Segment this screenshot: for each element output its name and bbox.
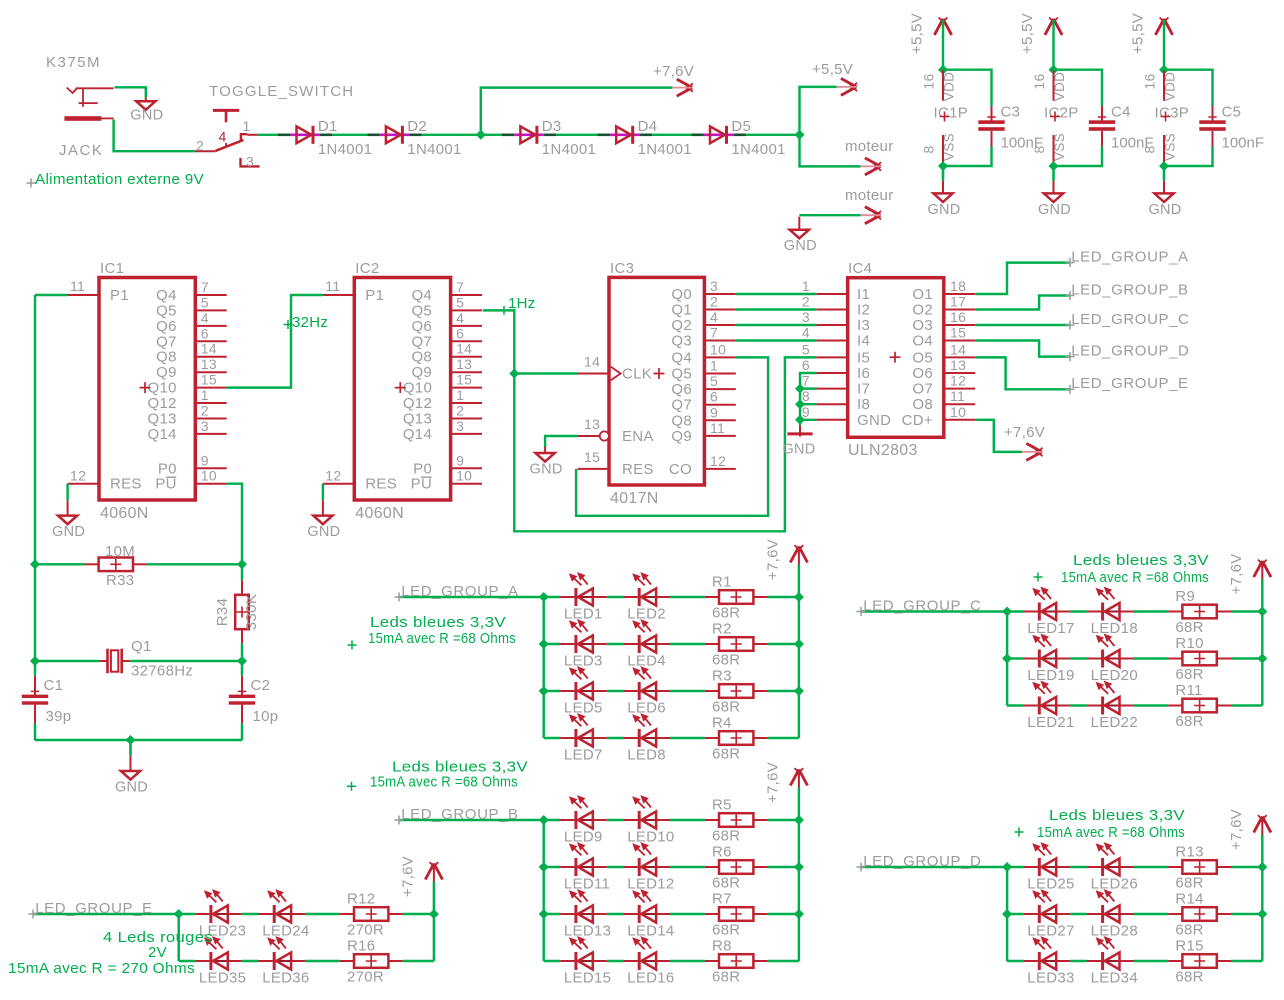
IC IC4 pin 15 O4 [912, 325, 975, 350]
wire jack tip to GND [115, 87, 146, 97]
wire IC2 RES to GND [322, 484, 324, 501]
wire IC3 Q3 to IC4 I4 [736, 339, 817, 341]
svg-text:PU: PU [411, 476, 432, 493]
supply arrow +7,6V LED_GROUP_A [790, 547, 807, 563]
svg-text:+5,5V: +5,5V [909, 13, 926, 54]
LED LED5 [560, 666, 607, 716]
wire D5 to right junction [746, 134, 800, 136]
svg-text:R13: R13 [1175, 844, 1203, 861]
svg-text:12: 12 [950, 373, 966, 389]
wire IC4 I6-I8-GND bus [800, 373, 816, 425]
wire IC1 Q10 to IC2 P1 net 32Hz [226, 295, 323, 388]
wire IC3 Q0 to IC4 I1 [736, 293, 817, 295]
svg-text:C4: C4 [1111, 104, 1131, 121]
svg-text:LED12: LED12 [627, 876, 674, 893]
LED LED10 [624, 795, 675, 845]
svg-text:IC2: IC2 [355, 260, 379, 277]
node R33 left junction [30, 559, 40, 569]
capacitor C1 [22, 676, 72, 725]
svg-text:Q3: Q3 [671, 333, 692, 350]
svg-text:P1: P1 [110, 287, 129, 304]
wire LED_GROUP_E row 2 [179, 960, 196, 962]
wire LED_GROUP_D row 2 [1007, 913, 1024, 915]
svg-text:2: 2 [201, 403, 209, 419]
svg-text:C1: C1 [44, 677, 64, 694]
svg-text:Q14: Q14 [148, 426, 177, 443]
wire IC1 P1 to left bus [35, 294, 68, 296]
svg-text:LED21: LED21 [1027, 714, 1074, 731]
wire O2 to LED_GROUP_B label [975, 296, 1070, 310]
svg-text:68R: 68R [712, 875, 740, 892]
svg-text:Leds bleues 3,3V: Leds bleues 3,3V [370, 614, 506, 631]
svg-text:+7,6V: +7,6V [1228, 809, 1245, 850]
IC IC3 4017N body [609, 260, 704, 507]
node LED_GROUP_C right junction [1257, 607, 1267, 617]
text leds bleues C [1034, 573, 1043, 582]
IC IC3 pin 3 Q0 [671, 278, 735, 303]
svg-text:+7,6V: +7,6V [653, 63, 694, 80]
svg-text:LED4: LED4 [627, 653, 666, 670]
resistor R2 [705, 621, 768, 669]
svg-text:Q0: Q0 [671, 286, 692, 303]
svg-text:5: 5 [456, 294, 464, 310]
svg-text:9: 9 [710, 404, 718, 420]
svg-text:5: 5 [802, 341, 810, 357]
wire LED_GROUP_D right bus [1261, 835, 1263, 962]
svg-text:68R: 68R [1175, 969, 1203, 986]
svg-text:16: 16 [1142, 73, 1158, 89]
svg-text:D3: D3 [542, 118, 562, 135]
IC power part IC3P pin 16 VDD [1163, 70, 1165, 101]
wire LED_GROUP_C left bus [1006, 612, 1008, 706]
svg-text:1: 1 [243, 118, 251, 134]
svg-text:D1: D1 [318, 118, 338, 135]
svg-text:R2: R2 [712, 621, 732, 638]
svg-text:Q12: Q12 [148, 395, 177, 412]
svg-text:+7,6V: +7,6V [765, 762, 782, 803]
svg-text:Q1: Q1 [671, 302, 692, 319]
svg-text:LED_GROUP_A: LED_GROUP_A [1071, 249, 1188, 266]
wire LED_GROUP_E left bus [177, 914, 179, 961]
svg-text:4: 4 [201, 310, 209, 326]
svg-text:P1: P1 [365, 287, 384, 304]
svg-text:PU: PU [155, 476, 176, 493]
svg-text:14: 14 [201, 341, 217, 357]
svg-text:100nF: 100nF [1222, 135, 1265, 152]
resistor R11 [1168, 682, 1231, 730]
svg-text:GND: GND [530, 462, 563, 478]
svg-text:R10: R10 [1175, 635, 1203, 652]
wire LED_GROUP_A row 1 [544, 596, 561, 598]
svg-text:Q4: Q4 [671, 349, 692, 366]
svg-text:GND: GND [1148, 202, 1181, 218]
capacitor C3 100nF [978, 104, 1043, 152]
svg-text:R15: R15 [1175, 938, 1203, 955]
wire D2 to junction [422, 134, 481, 136]
wire C5 to VSS [1164, 147, 1213, 167]
svg-text:68R: 68R [712, 922, 740, 939]
svg-text:7: 7 [201, 279, 209, 295]
IC IC4 pin 13 O6 [912, 357, 975, 382]
diode D2 [367, 118, 461, 158]
IC IC4 pin 11 O8 [912, 388, 975, 413]
svg-text:+7,6V: +7,6V [1228, 553, 1245, 594]
wire LED_GROUP_D left bus [1006, 867, 1008, 961]
svg-text:LED20: LED20 [1091, 667, 1138, 684]
IC IC4 pin 2 I2 [802, 294, 870, 319]
svg-text:11: 11 [325, 278, 340, 294]
svg-text:1: 1 [201, 387, 209, 403]
connector JACK K375M [46, 54, 114, 159]
svg-text:CO: CO [669, 461, 692, 478]
svg-text:I4: I4 [857, 333, 870, 350]
svg-text:C2: C2 [251, 677, 271, 694]
svg-text:5: 5 [710, 373, 718, 389]
IC IC4 pin 7 I7 [802, 373, 870, 398]
svg-text:10p: 10p [253, 708, 279, 725]
ground GND IC1 [67, 501, 69, 516]
svg-text:10: 10 [710, 341, 726, 357]
resistor R13 [1168, 844, 1231, 892]
wire LED_GROUP_B right bus [798, 788, 800, 962]
svg-text:270R: 270R [347, 922, 384, 939]
IC IC4 marker + [890, 352, 901, 363]
svg-text:13: 13 [950, 357, 966, 373]
IC IC1 pin 2 Q13 [148, 403, 227, 428]
svg-text:Q2: Q2 [671, 317, 692, 334]
svg-text:1N4001: 1N4001 [407, 141, 461, 158]
svg-text:IC1P: IC1P [934, 105, 969, 122]
ground GND IC2 [322, 501, 324, 516]
svg-text:R16: R16 [347, 938, 375, 955]
svg-text:14: 14 [456, 341, 472, 357]
svg-text:LED6: LED6 [627, 700, 666, 717]
resistor R5 [705, 797, 768, 845]
svg-text:LED_GROUP_D: LED_GROUP_D [863, 853, 981, 870]
svg-text:3: 3 [201, 418, 209, 434]
svg-text:GND: GND [52, 524, 85, 540]
wire switch to D1 [258, 134, 278, 136]
wire IC3 Q2 to IC4 I3 [736, 324, 817, 326]
svg-text:3: 3 [456, 418, 464, 434]
LED LED19 [1024, 634, 1075, 684]
diode D3 [502, 118, 596, 158]
supply arrow +7,6V LED_GROUP_B [790, 770, 807, 786]
svg-text:68R: 68R [712, 828, 740, 845]
svg-text:Q5: Q5 [411, 302, 432, 319]
svg-text:68R: 68R [1175, 713, 1203, 730]
svg-text:R12: R12 [347, 891, 375, 908]
IC IC2 pin 11 P1 [323, 278, 384, 304]
IC IC3 pin 15 RES [578, 449, 654, 478]
wire LED_GROUP_A row 4 [544, 737, 561, 739]
LED LED28 [1087, 889, 1138, 939]
svg-text:LED33: LED33 [1027, 970, 1074, 987]
node GND pin junction [795, 415, 805, 425]
svg-text:O4: O4 [912, 333, 933, 350]
IC IC1 pin 12 RES [68, 468, 142, 493]
svg-text:LED_GROUP_C: LED_GROUP_C [863, 598, 981, 615]
IC IC3 pin 14 CLK [578, 354, 665, 383]
LED LED13 [560, 889, 611, 939]
svg-text:LED_GROUP_C: LED_GROUP_C [1071, 311, 1189, 328]
IC IC3 pin 6 Q7 [671, 389, 735, 414]
wire crystal right [130, 660, 242, 662]
svg-text:IC3P: IC3P [1155, 105, 1190, 122]
svg-text:R4: R4 [712, 715, 732, 732]
IC IC3 pin 12 CO [669, 453, 736, 478]
svg-text:LED_GROUP_E: LED_GROUP_E [1071, 375, 1188, 392]
LED LED11 [560, 842, 610, 892]
svg-text:I1: I1 [857, 286, 870, 303]
svg-text:8: 8 [802, 388, 810, 404]
diode D4 [598, 118, 692, 158]
IC power part IC3P pin 8 VSS [1163, 135, 1165, 166]
svg-text:LED28: LED28 [1091, 923, 1138, 940]
IC IC4 pin 1 I1 [802, 278, 870, 303]
IC IC3 pin 7 Q3 [671, 325, 735, 350]
node LED_GROUP_C left junction [1002, 654, 1012, 664]
svg-text:O2: O2 [912, 302, 933, 319]
svg-text:10: 10 [201, 468, 217, 484]
node VSS junction IC3P [1159, 161, 1169, 171]
wire bottom gnd rail [35, 739, 242, 741]
svg-text:GND: GND [115, 780, 148, 796]
node LED_GROUP_B right junction [794, 862, 804, 872]
wire junction to D3 [481, 134, 502, 136]
IC IC4 pin 6 I6 [802, 357, 870, 382]
svg-text:D2: D2 [407, 118, 427, 135]
wire LED_GROUP_B row 4 [544, 960, 561, 962]
svg-text:R14: R14 [1175, 891, 1203, 908]
IC power part IC2P pin 16 VDD [1053, 70, 1055, 101]
svg-text:VSS: VSS [1163, 133, 1178, 161]
wire CD+ to +7,6V [975, 420, 1022, 452]
svg-text:RES: RES [622, 461, 654, 478]
node +7,6V tap junction [476, 130, 486, 140]
resistor R4 [705, 715, 768, 763]
wire C4 to VSS [1054, 147, 1103, 167]
flag moteur 1 [865, 158, 881, 175]
svg-text:LED_GROUP_D: LED_GROUP_D [1071, 343, 1189, 360]
label 32Hz [284, 320, 293, 329]
svg-text:68R: 68R [1175, 922, 1203, 939]
LED LED8 [624, 713, 671, 763]
wire +5,5V to VDD IC3P [1163, 20, 1165, 70]
svg-text:7: 7 [802, 373, 810, 389]
wire C1 bottom [34, 723, 36, 740]
IC IC4 pin 9 GND [802, 404, 891, 429]
wire bus to R34 [241, 564, 243, 580]
IC IC1 pin 15 Q10 [148, 372, 227, 397]
svg-text:11: 11 [70, 278, 85, 294]
svg-text:1N4001: 1N4001 [731, 141, 785, 158]
svg-text:15mA avec R = 270 Ohms: 15mA avec R = 270 Ohms [8, 960, 195, 977]
resistor R34 [214, 581, 260, 644]
wire moteur 2 [799, 214, 860, 216]
wire jack sleeve to switch pin 2 [114, 120, 195, 152]
wire LED_GROUP_A right bus [798, 565, 800, 739]
svg-text:GND: GND [857, 412, 891, 429]
svg-text:LED16: LED16 [627, 970, 674, 987]
svg-text:Alimentation externe 9V: Alimentation externe 9V [35, 171, 204, 188]
net label LED_GROUP_E [1066, 385, 1075, 394]
node LED_GROUP_A right junction [794, 686, 804, 696]
svg-text:IC2P: IC2P [1044, 105, 1079, 122]
svg-text:Q1: Q1 [131, 638, 152, 655]
node +5,5V/moteur junction [795, 130, 805, 140]
supply arrow +7,6V top [677, 79, 693, 96]
LED LED22 [1087, 681, 1138, 731]
wire LED_GROUP_D row 1 [1007, 866, 1024, 868]
wire IC1 PU to bus [226, 484, 242, 565]
svg-text:R11: R11 [1175, 682, 1202, 699]
svg-text:68R: 68R [712, 969, 740, 986]
svg-text:1: 1 [456, 387, 464, 403]
LED LED24 [259, 889, 310, 939]
node I7 junction [795, 384, 805, 394]
svg-text:1N4001: 1N4001 [542, 141, 596, 158]
svg-text:4: 4 [456, 310, 464, 326]
svg-text:I7: I7 [857, 381, 870, 398]
wire +5,5V to VDD IC2P [1052, 20, 1054, 70]
LED LED2 [624, 572, 671, 622]
svg-text:6: 6 [456, 325, 464, 341]
svg-text:8: 8 [1142, 145, 1158, 153]
node LED_GROUP_D right junction [1257, 862, 1267, 872]
svg-text:VSS: VSS [942, 133, 957, 161]
svg-text:Leds bleues 3,3V: Leds bleues 3,3V [1073, 552, 1209, 569]
svg-text:Q7: Q7 [671, 397, 692, 414]
svg-text:68R: 68R [1175, 619, 1203, 636]
wire O4 to LED_GROUP_D label [975, 341, 1070, 357]
svg-text:I5: I5 [857, 349, 870, 366]
svg-text:12: 12 [70, 468, 86, 484]
node CLK junction [509, 369, 519, 379]
IC IC1 pin 11 P1 [68, 278, 129, 304]
svg-text:LED7: LED7 [564, 747, 603, 764]
IC IC2 pin 1 Q12 [403, 387, 482, 412]
svg-text:LED15: LED15 [564, 970, 611, 987]
wire O5 to LED_GROUP_E label [975, 357, 1070, 389]
svg-text:32768Hz: 32768Hz [131, 663, 193, 680]
wire +5,5V tap [800, 87, 837, 135]
IC IC4 pin 14 O5 [912, 341, 975, 366]
LED LED25 [1024, 842, 1075, 892]
IC power part IC2P pin 8 VSS [1053, 135, 1055, 166]
ground GND IC3P [1163, 166, 1166, 181]
node VSS junction IC1P [938, 161, 948, 171]
text leds bleues D [1015, 828, 1024, 837]
svg-text:16: 16 [1031, 73, 1047, 89]
capacitor C2 [229, 676, 279, 725]
LED LED16 [624, 936, 675, 986]
svg-text:LED18: LED18 [1091, 620, 1138, 637]
net label LED_GROUP_D [1066, 352, 1075, 361]
svg-text:4060N: 4060N [355, 505, 404, 522]
IC IC4 pin 17 O2 [912, 294, 975, 319]
IC IC1 pin 13 Q9 [156, 356, 227, 381]
IC power part IC1P pin 16 VDD [942, 70, 944, 101]
svg-text:VDD: VDD [942, 72, 957, 101]
svg-text:Q8: Q8 [671, 412, 692, 429]
capacitor C4 100nF [1089, 104, 1154, 152]
resistor R14 [1168, 891, 1231, 939]
svg-text:O1: O1 [912, 286, 933, 303]
LED LED12 [624, 842, 675, 892]
svg-text:ENA: ENA [622, 428, 654, 445]
resistor R6 [705, 844, 768, 892]
supply arrow +5,5V IC2P [1045, 19, 1062, 35]
wire IC3 ENA to GND [545, 436, 578, 447]
wire I7 stub [800, 387, 816, 389]
node LED_GROUP_E right junction [429, 909, 439, 919]
svg-text:O8: O8 [912, 396, 933, 413]
node bottom junction [126, 735, 136, 745]
svg-text:15: 15 [456, 372, 472, 388]
resistor R9 [1168, 588, 1231, 636]
svg-text:Q12: Q12 [403, 395, 432, 412]
resistor [84, 558, 147, 572]
svg-text:LED13: LED13 [564, 923, 611, 940]
wire D4 to D5 [652, 134, 691, 136]
svg-text:ULN2803: ULN2803 [848, 442, 918, 459]
LED LED17 [1024, 587, 1075, 637]
svg-text:4: 4 [219, 129, 227, 145]
svg-text:I6: I6 [857, 365, 870, 382]
svg-text:LED19: LED19 [1027, 667, 1074, 684]
IC IC1 pin 10 PU [155, 468, 226, 493]
svg-text:+7,6V: +7,6V [400, 856, 417, 897]
svg-text:1: 1 [710, 358, 718, 374]
svg-text:LED8: LED8 [627, 747, 666, 764]
LED LED35 [195, 936, 246, 986]
IC IC3 pin 5 Q6 [671, 373, 735, 398]
LED LED15 [560, 936, 611, 986]
svg-text:1Hz: 1Hz [508, 295, 536, 312]
svg-text:17: 17 [950, 294, 966, 310]
svg-text:9: 9 [802, 404, 810, 420]
svg-text:GND: GND [782, 442, 815, 458]
wire LED_GROUP_D row 3 [1007, 960, 1024, 962]
svg-text:14: 14 [950, 341, 966, 357]
svg-text:IC1: IC1 [100, 260, 124, 277]
svg-text:15: 15 [584, 449, 600, 465]
text leds bleues A [348, 641, 357, 650]
svg-text:Q8: Q8 [411, 349, 432, 366]
wire C2 bottom [241, 723, 243, 740]
IC IC3 pin 11 Q9 [671, 420, 735, 445]
svg-text:18: 18 [950, 278, 966, 294]
IC IC2 pin 14 Q8 [411, 341, 482, 366]
node LED_GROUP_B right junction [794, 909, 804, 919]
IC IC4 ULN2803 body [848, 260, 944, 459]
svg-text:+5,5V: +5,5V [812, 61, 853, 78]
node LED_GROUP_B left junction [539, 909, 549, 919]
svg-text:LED10: LED10 [627, 829, 674, 846]
svg-text:10: 10 [950, 404, 966, 420]
svg-text:LED25: LED25 [1027, 876, 1074, 893]
svg-text:15mA avec R =68 Ohms: 15mA avec R =68 Ohms [370, 774, 518, 791]
wire O3 to LED_GROUP_C label [975, 324, 1070, 326]
svg-text:+7,6V: +7,6V [765, 539, 782, 580]
IC IC3 pin 9 Q8 [671, 404, 735, 429]
IC IC2 pin 10 PU [411, 468, 482, 493]
wire IC3 Q4 to RES loop [576, 357, 768, 515]
svg-text:8: 8 [1031, 145, 1047, 153]
svg-text:RES: RES [365, 476, 397, 493]
IC IC4 pin 4 I4 [802, 325, 870, 350]
